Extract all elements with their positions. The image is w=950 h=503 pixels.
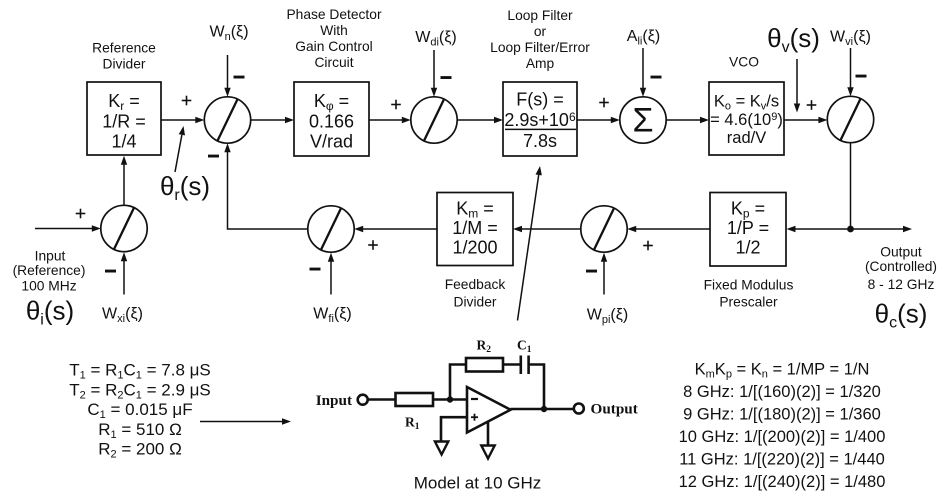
label theta_c(s) [875,299,928,332]
wire Ali arrow into S3 [640,48,646,97]
wire B1 to S1 [161,117,204,123]
wire B2 to S2 [369,117,411,123]
wire Wpi arrow into S5 [601,253,607,295]
wire Wxi arrow into S7 [121,252,127,294]
wire S5 to B5 [513,226,581,232]
svg-text:rad/V: rad/V [727,129,766,147]
wire C1 to output node [529,365,544,410]
svg-text:100 MHz: 100 MHz [21,279,76,294]
svg-text:8 - 12 GHz: 8 - 12 GHz [868,277,935,292]
label F(s) = 2.9s+10^6 / 7.8s [504,90,576,152]
svg-text:Ali(ξ): Ali(ξ) [627,28,660,48]
plus sign input [76,209,86,219]
ground G2 [481,446,494,459]
wire B5 to S6 [354,226,437,232]
wire S4 down to node [850,143,852,229]
node at R1 output [447,396,453,402]
wire plus input [441,417,467,441]
svg-text:1/M =: 1/M = [452,218,498,238]
label Input (Reference) 100 MHz [13,249,86,294]
svg-text:0.166: 0.166 [309,112,354,132]
svg-text:Loop Filter/Error: Loop Filter/Error [490,40,590,55]
minus sign Wn [234,76,245,79]
minus sign Ali [651,76,662,79]
svg-text:Output: Output [880,245,922,260]
block B6 prescaler Kp [710,193,786,267]
svg-text:8 GHz: 1/[(160)(2)] = 1/320: 8 GHz: 1/[(160)(2)] = 1/320 [683,383,881,401]
svg-text:1/2: 1/2 [735,238,760,258]
title Reference Divider [92,41,156,72]
svg-text:(Reference): (Reference) [13,263,86,278]
wire Wdi arrow into S2 [431,50,437,97]
block B3 loop filter F(s) [503,82,577,156]
label Wdi(xi) [415,29,457,49]
op-amp U1 [467,387,511,433]
svg-text:Reference: Reference [92,41,156,56]
svg-text:or: or [534,24,547,39]
label Km = 1/M = 1/200 [452,199,498,258]
svg-text:Circuit: Circuit [314,55,353,70]
svg-text:Gain Control: Gain Control [295,39,372,54]
svg-text:2.9s+106: 2.9s+106 [504,110,576,130]
svg-text:(Controlled): (Controlled) [865,259,937,274]
summing junction S4 [827,96,873,142]
plus sign before S4 [807,100,817,110]
title Fixed Modulus Prescaler [704,278,794,310]
wire node to B6 [787,226,851,232]
label Wxi(xi) [102,306,143,326]
label Wpi(xi) [587,307,629,327]
summing junction S6 [308,206,354,252]
minus sign Wpi [586,270,597,273]
svg-text:F(s) =: F(s) = [516,90,564,110]
minus sign Wdi [441,76,452,79]
svg-text:θc(s): θc(s) [875,299,928,332]
capacitor C1 [521,356,529,375]
wire feedback up from node [450,365,466,400]
wire long diagonal arrow to F(s) [518,166,542,321]
plus sign before S3 [599,98,609,108]
label Wvi(xi) [830,29,871,49]
block B4 VCO Ko [709,82,784,155]
label Output [591,401,638,418]
minus sign Wfi [310,268,321,271]
label Kr = 1/R = 1/4 [102,91,146,152]
resistor R2 [466,358,503,372]
block B2 phase detector Kphi [294,82,369,156]
svg-text:θv(s): θv(s) [767,23,820,56]
wire R2 to C1 [503,363,520,366]
svg-text:Output: Output [591,401,638,418]
svg-text:Σ: Σ [632,102,653,140]
wire Wn arrow into S1 [224,55,230,97]
label theta_r(s) [160,171,210,204]
wire S7 to B1 [121,156,127,206]
node junction dot [847,226,854,233]
label Kp = 1/P = 1/2 [727,199,769,258]
svg-text:With: With [320,23,348,38]
plus sign before S5 [643,241,653,251]
label Wn(xi) [209,24,248,44]
opamp minus marking [471,398,478,400]
title Phase Detector With Gain Control Circuit [286,7,382,70]
wire S2 to B3 [457,117,503,123]
svg-text:Input: Input [316,392,352,409]
label theta_i(s) [26,296,74,329]
opamp plus marking [471,414,478,421]
input terminal [358,395,368,405]
summing junction S5 [581,206,627,252]
label Kphi = 0.166 V/rad [309,91,354,152]
svg-text:Input: Input [35,249,66,264]
summing junction S1 [204,97,250,143]
summing junction S2 [411,97,457,143]
wire B6 to S5 [627,226,710,232]
wire arrow from equations to circuit [200,418,291,424]
svg-text:Divider: Divider [454,295,497,310]
svg-text:Ko = Kv/s: Ko = Kv/s [714,93,779,113]
wire Wvi arrow into S4 [847,48,853,96]
wire input to S7 [35,225,101,231]
wire opamp bottom stub [487,421,490,444]
wire B4 to S4 [784,117,827,123]
plus sign before S2 [391,100,401,110]
block B1 reference divider Kr [87,82,161,155]
caption Model at 10 GHz [414,474,542,493]
label C1 [517,338,532,356]
wire Wfi arrow into S6 [328,253,334,295]
resistor R1 [396,393,434,406]
svg-text:Phase Detector: Phase Detector [286,7,382,22]
equations right block [679,361,886,492]
wire input to R1 [368,398,396,401]
label R2 [477,338,492,356]
svg-text:1/4: 1/4 [111,132,136,152]
label Output (Controlled) 8 - 12 GHz [865,245,937,293]
wire S6 to S1 feedback [224,143,307,229]
wire B3 to S3 [577,117,620,123]
opamp circuit [316,338,638,459]
svg-text:9 GHz: 1/[(180)(2)] = 1/360: 9 GHz: 1/[(180)(2)] = 1/360 [683,406,881,424]
svg-text:Amp: Amp [526,56,555,71]
svg-text:θi(s): θi(s) [26,296,74,329]
fraction bar in F(s) block [505,128,576,130]
plus sign before S1 [182,96,192,106]
block B5 feedback divider Km [437,193,513,266]
svg-text:Model at 10 GHz: Model at 10 GHz [414,474,542,493]
wire theta_v arrow onto wire [794,59,800,113]
minus sign Wvi [856,75,867,78]
equations left block [69,361,211,461]
wire opamp output [511,408,574,411]
svg-text:Divider: Divider [103,57,146,72]
minus sign S1 bottom [208,155,219,158]
svg-text:KmKp = Kn = 1/MP = 1/N: KmKp = Kn = 1/MP = 1/N [695,361,870,381]
svg-text:12 GHz: 1/[(240)(2)] = 1/480: 12 GHz: 1/[(240)(2)] = 1/480 [679,473,886,491]
label Ali(xi) [627,28,660,48]
svg-text:Kr =: Kr = [108,91,140,113]
wire R1 to opamp [433,398,467,401]
svg-text:10 GHz: 1/[(200)(2)] = 1/400: 10 GHz: 1/[(200)(2)] = 1/400 [679,428,886,446]
label Input [316,392,352,409]
title VCO [729,55,759,70]
wire node to output [851,226,913,232]
svg-text:V/rad: V/rad [310,132,353,152]
label Ko = Kv/s = 4.6(10^9) rad/V [710,93,783,148]
label Wfi(xi) [313,306,351,326]
node at output [541,406,547,412]
wire S3 to B4 [666,117,709,123]
plus sign right of S6 [368,240,378,250]
title Loop Filter or Loop Filter/Error Amp [490,8,590,71]
svg-text:VCO: VCO [729,55,759,70]
svg-text:1/200: 1/200 [452,238,497,258]
svg-text:11 GHz: 1/[(220)(2)] = 1/440: 11 GHz: 1/[(220)(2)] = 1/440 [679,451,885,469]
output terminal [574,404,584,414]
summing junction S7 [101,205,147,251]
label R1 [405,415,420,433]
summing junction S3 sigma [620,97,666,143]
wire theta_r arrow [175,126,185,172]
svg-text:1/R =: 1/R = [102,112,146,132]
svg-text:θr(s): θr(s) [160,171,210,204]
svg-text:1/P =: 1/P = [727,218,769,238]
ground G1 [435,442,448,455]
svg-text:Feedback: Feedback [445,277,506,292]
svg-text:Prescaler: Prescaler [719,295,778,310]
wire S1 to B2 [251,117,294,123]
svg-text:Loop Filter: Loop Filter [507,8,573,23]
label theta_v(s) [767,23,820,56]
svg-text:Fixed Modulus: Fixed Modulus [704,278,794,293]
minus sign Wxi [105,270,116,273]
svg-text:7.8s: 7.8s [523,131,557,151]
title Feedback Divider [445,277,506,310]
